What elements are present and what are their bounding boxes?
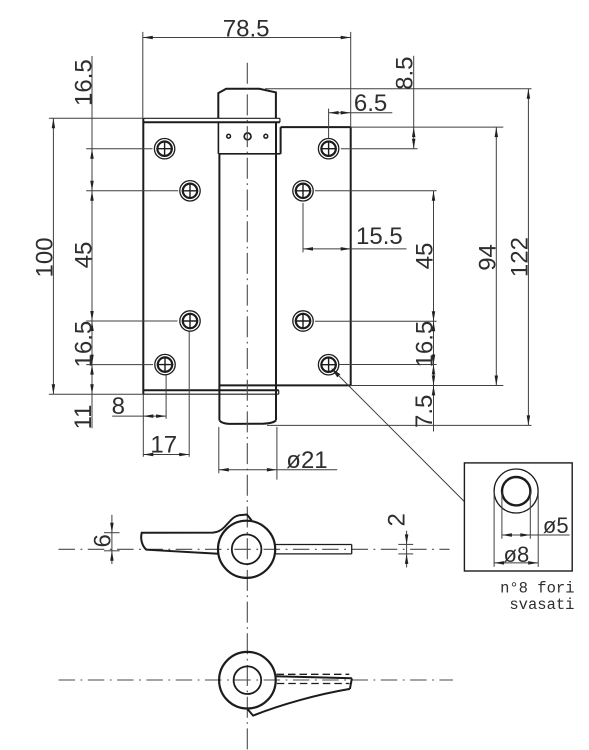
dim 15.5 line: [303, 248, 407, 250]
arrow o8 right: [528, 561, 538, 565]
leader line to detail: [332, 369, 465, 502]
dim 122 line: [527, 89, 529, 426]
top band thick line (leaf top edge): [143, 121, 280, 123]
arrow chainL row3 up: [90, 321, 94, 331]
ext line barrel bottom right: [267, 424, 532, 426]
arrow o8 left: [494, 561, 504, 565]
dim 17 line: [143, 454, 189, 456]
arrow 8.5 bottom: [412, 139, 416, 149]
svg-text:8.5: 8.5: [391, 57, 418, 90]
ext line leaf bottom right: [351, 385, 504, 387]
hole inner circle: [502, 477, 530, 505]
arrow o21 right: [267, 468, 277, 472]
knuckle outer circle middle view: [218, 521, 275, 578]
left leaf left edge: [142, 118, 144, 394]
svg-text:7.5: 7.5: [411, 395, 438, 428]
svg-text:78.5: 78.5: [223, 15, 270, 42]
screw hole row3 left: [180, 311, 200, 331]
right chain line: [433, 191, 435, 432]
horizontal centerline middle view: [59, 548, 450, 550]
dim o5 line: [502, 534, 570, 536]
thin leaf strip top line: [275, 544, 352, 546]
bottom band thick line (leaf bottom edge): [143, 389, 279, 391]
svg-text:11: 11: [70, 404, 97, 429]
arrow o5 left: [502, 533, 512, 537]
ext line leaf top left: [49, 117, 143, 119]
ext line row2 right: [315, 190, 437, 192]
arrow 6.5 right: [341, 111, 351, 115]
svg-text:8: 8: [112, 393, 125, 420]
screw hole row4 left: [155, 354, 175, 374]
ext line hole4 left col: [165, 375, 167, 419]
svg-text:122: 122: [507, 237, 534, 277]
ext line hole1 right col up: [328, 109, 330, 139]
bottom band end cap: [278, 390, 280, 394]
ext line hole2 right col down: [302, 203, 304, 253]
bottom band thin line: [143, 393, 279, 395]
ext line leaf top right: [351, 126, 504, 128]
dim 6.5 line: [329, 112, 393, 114]
arrow 6.5 left: [329, 111, 339, 115]
screw hole row4 right: [318, 355, 338, 375]
right leaf bottom edge: [219, 384, 351, 386]
arrow 78.5 right: [341, 36, 351, 40]
arrow chainL row2 up: [90, 191, 94, 201]
barrel bottom cap: [219, 420, 276, 424]
arrow chainR row2 up: [432, 191, 436, 201]
arrow chainL bottom down: [90, 384, 94, 394]
right leaf left edge (plate right edge): [280, 127, 282, 154]
ext line row1 left: [86, 148, 152, 150]
horizontal centerline bottom view: [59, 679, 454, 681]
dim o8 line: [494, 562, 538, 564]
ext line leaf left bottom: [142, 394, 144, 457]
knuckle inner circle bottom view: [234, 666, 262, 694]
arrow 94 bottom: [495, 376, 499, 386]
ext line row3 left: [86, 320, 177, 322]
hidden edge dashes bottom: [277, 683, 350, 685]
arrow o21 left: [219, 468, 229, 472]
svg-text:16.5: 16.5: [71, 59, 98, 106]
arrow chainR bottom down: [432, 375, 436, 385]
arrow 8 right: [156, 414, 166, 418]
arrow 100 top: [52, 118, 56, 128]
arrow 15.5 right: [341, 247, 351, 251]
screw hole row3 right: [293, 311, 313, 331]
left chain line: [91, 56, 93, 428]
arrow 122 bottom: [527, 415, 531, 425]
arrow chainL row3 down: [90, 311, 94, 321]
dim 94 line: [495, 127, 497, 385]
ext line o5 left: [501, 492, 503, 539]
arrow 8 left: [143, 414, 153, 418]
dim 8 line: [112, 415, 166, 417]
arrow 8.5 top: [412, 127, 416, 137]
arm bottom wrap curve: [247, 689, 350, 716]
dim 78.5 line: [143, 37, 351, 39]
barrel left edge lower: [218, 154, 220, 421]
barrel right edge: [275, 122, 277, 420]
arrow 122 top: [527, 89, 531, 99]
dim 8.5 line: [413, 56, 415, 149]
vertical centerline: [246, 63, 248, 750]
plate small hole left: [227, 134, 231, 138]
arrow chainL row4 down: [90, 355, 94, 365]
arrow chainL row1 up: [90, 149, 94, 159]
svg-text:16.5: 16.5: [412, 321, 439, 368]
knuckle inner circle middle view: [232, 535, 262, 565]
ext line row4 right: [339, 364, 437, 366]
arm top edge bottom view: [276, 676, 352, 678]
svg-text:6.5: 6.5: [354, 90, 387, 117]
ext line 78.5 / 6.5 right: [350, 32, 352, 127]
spring plate left edge: [217, 122, 219, 154]
screw hole row1 left: [154, 139, 174, 159]
plate small hole center: [244, 133, 251, 140]
svg-text:45: 45: [70, 242, 97, 269]
svg-text:15.5: 15.5: [356, 223, 403, 250]
screw hole row2 left: [180, 181, 200, 201]
arrow 94 top: [495, 127, 499, 137]
arrow chainR row4 up: [432, 365, 436, 375]
top band end cap: [279, 118, 281, 122]
arrow chainR row3 up: [432, 321, 436, 331]
arrow chainL row4 up: [90, 365, 94, 375]
ext line o21 right: [276, 427, 278, 480]
barrel top cap: [218, 89, 276, 118]
ext line row1 right: [341, 148, 418, 150]
ext line 78.5 left: [142, 32, 144, 118]
svg-text:ø21: ø21: [286, 447, 327, 474]
ext line o21 left: [218, 427, 220, 473]
thin leaf strip bottom line: [276, 553, 352, 555]
arrow chainR row3 down: [432, 311, 436, 321]
ext line row3 right: [315, 320, 437, 322]
svg-text:svasati: svasati: [509, 596, 574, 614]
ext line row2 left: [86, 190, 178, 192]
countersink outer circle: [494, 469, 538, 513]
svg-text:17: 17: [150, 431, 177, 458]
svg-text:ø8: ø8: [504, 542, 530, 567]
svg-text:100: 100: [32, 237, 59, 277]
detail box: [464, 463, 572, 571]
ext line row4 left: [86, 364, 153, 366]
arrow chainL row2 down: [90, 181, 94, 191]
svg-text:n°8 fori: n°8 fori: [500, 580, 574, 598]
hidden edge dashes top: [277, 673, 350, 675]
ext line cap top right: [265, 88, 532, 90]
arrow chainR row4 down: [432, 355, 436, 365]
dim 100 line: [52, 118, 54, 394]
arrow o5 right: [520, 533, 530, 537]
ext line o8 left: [493, 492, 495, 567]
thin leaf strip end cap: [351, 545, 353, 554]
arrow 17 left: [143, 453, 153, 457]
right leaf right edge: [350, 127, 352, 385]
dim 6: [104, 515, 120, 564]
ext line leaf bottom left: [49, 393, 144, 395]
spring plate bottom edge: [218, 153, 280, 155]
arm end cap bottom view: [350, 678, 352, 689]
svg-text:ø5: ø5: [543, 513, 569, 538]
ext line o5 right: [529, 492, 531, 539]
screw hole row1 right: [318, 139, 338, 159]
leader arrowhead: [331, 368, 340, 377]
ext line o8 right: [537, 492, 539, 567]
top band thin line: [143, 117, 280, 119]
lever arm outline middle view: [141, 515, 251, 554]
arrow 2 top: [405, 534, 409, 544]
svg-text:16.5: 16.5: [70, 321, 97, 368]
arrow 100 bottom: [52, 384, 56, 394]
arrow 6 bottom: [110, 551, 114, 561]
arrow 17 right: [179, 453, 189, 457]
dim 2: [398, 531, 413, 568]
svg-text:45: 45: [412, 243, 439, 270]
knuckle outer circle bottom view: [219, 652, 276, 709]
svg-text:94: 94: [475, 244, 502, 271]
svg-text:2: 2: [383, 513, 410, 526]
dim o21 line: [219, 469, 337, 471]
arrow 78.5 left: [143, 36, 153, 40]
ext line hole3 left col: [188, 331, 190, 457]
arrow chainR bottom up: [432, 385, 436, 395]
screw hole row2 right: [293, 181, 313, 201]
arrow 15.5 left: [303, 247, 313, 251]
plate small hole right: [264, 134, 268, 138]
arrow 6 top: [110, 523, 114, 533]
right leaf top edge: [281, 126, 351, 128]
svg-text:6: 6: [90, 534, 117, 547]
arrow 2 bottom: [405, 554, 409, 564]
